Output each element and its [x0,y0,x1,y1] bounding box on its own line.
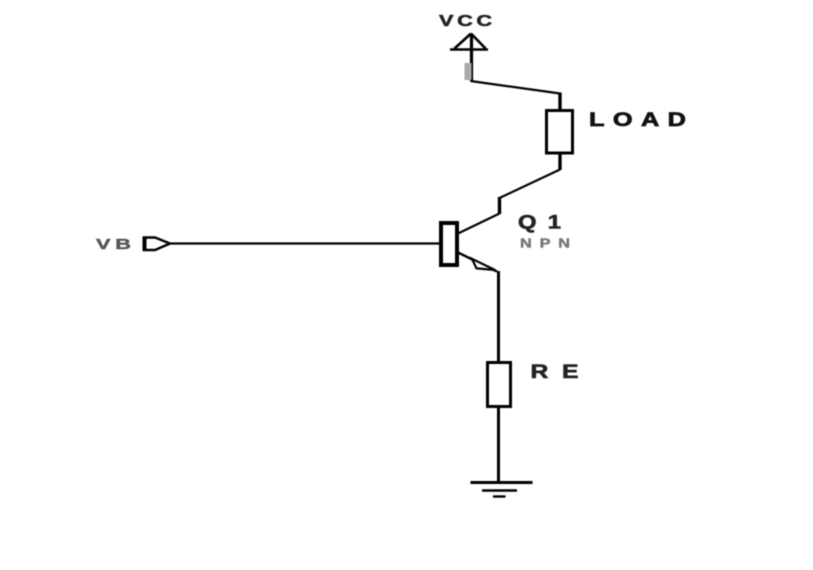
transistor Q1 emitter lead [458,253,497,272]
transistor Q1 base bar [441,223,457,265]
resistor LOAD [547,111,573,154]
resistor RE [488,363,511,407]
ground [471,483,533,497]
wire VCC to LOAD [471,81,561,110]
wire LOAD to collector [558,153,561,170]
port VB [144,238,170,251]
wire emitter to RE [497,271,500,362]
wire VCC stem [470,34,473,81]
power symbol VCC arrow [450,34,488,50]
wire base [170,242,441,244]
svg-text:VCC: VCC [439,12,493,29]
transistor Q1 emitter arrowhead [472,259,495,270]
svg-text:NPN: NPN [520,237,570,251]
wire RE to ground [497,406,500,482]
